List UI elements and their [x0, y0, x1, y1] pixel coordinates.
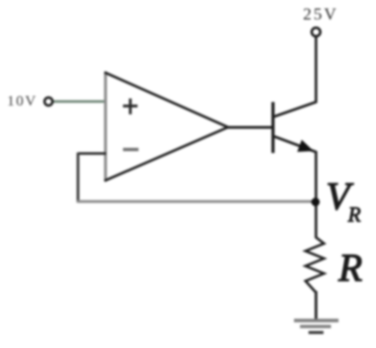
svg-text:R: R — [338, 247, 363, 290]
svg-text:25V: 25V — [303, 5, 338, 24]
svg-text:10V: 10V — [7, 94, 37, 110]
svg-text:R: R — [347, 203, 361, 227]
